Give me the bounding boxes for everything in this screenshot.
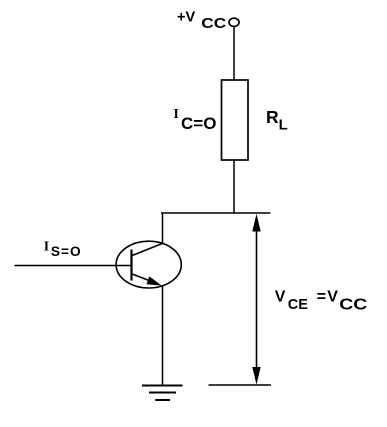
wire terminal to resistor top xyxy=(233,27,235,80)
wire collector node horizontal xyxy=(161,212,271,214)
wire emitter vertical xyxy=(162,286,164,386)
wire bottom reference line xyxy=(209,384,272,386)
svg-text:S=O: S=O xyxy=(51,244,82,259)
svg-text:CC: CC xyxy=(339,295,367,313)
svg-text:+V: +V xyxy=(177,10,195,26)
transistor Q1 xyxy=(116,241,181,288)
ground xyxy=(142,386,183,401)
node +VCC terminal xyxy=(229,18,239,26)
svg-text:C=O: C=O xyxy=(181,114,216,133)
wire base xyxy=(15,265,132,267)
wire collector vertical xyxy=(162,213,164,245)
wire resistor bottom to collector node xyxy=(233,160,235,213)
svg-text:I: I xyxy=(174,106,179,121)
svg-text:CC: CC xyxy=(201,15,226,32)
svg-text:I: I xyxy=(44,238,49,253)
resistor RL xyxy=(222,80,249,160)
measurement arrow VCE xyxy=(252,214,260,385)
